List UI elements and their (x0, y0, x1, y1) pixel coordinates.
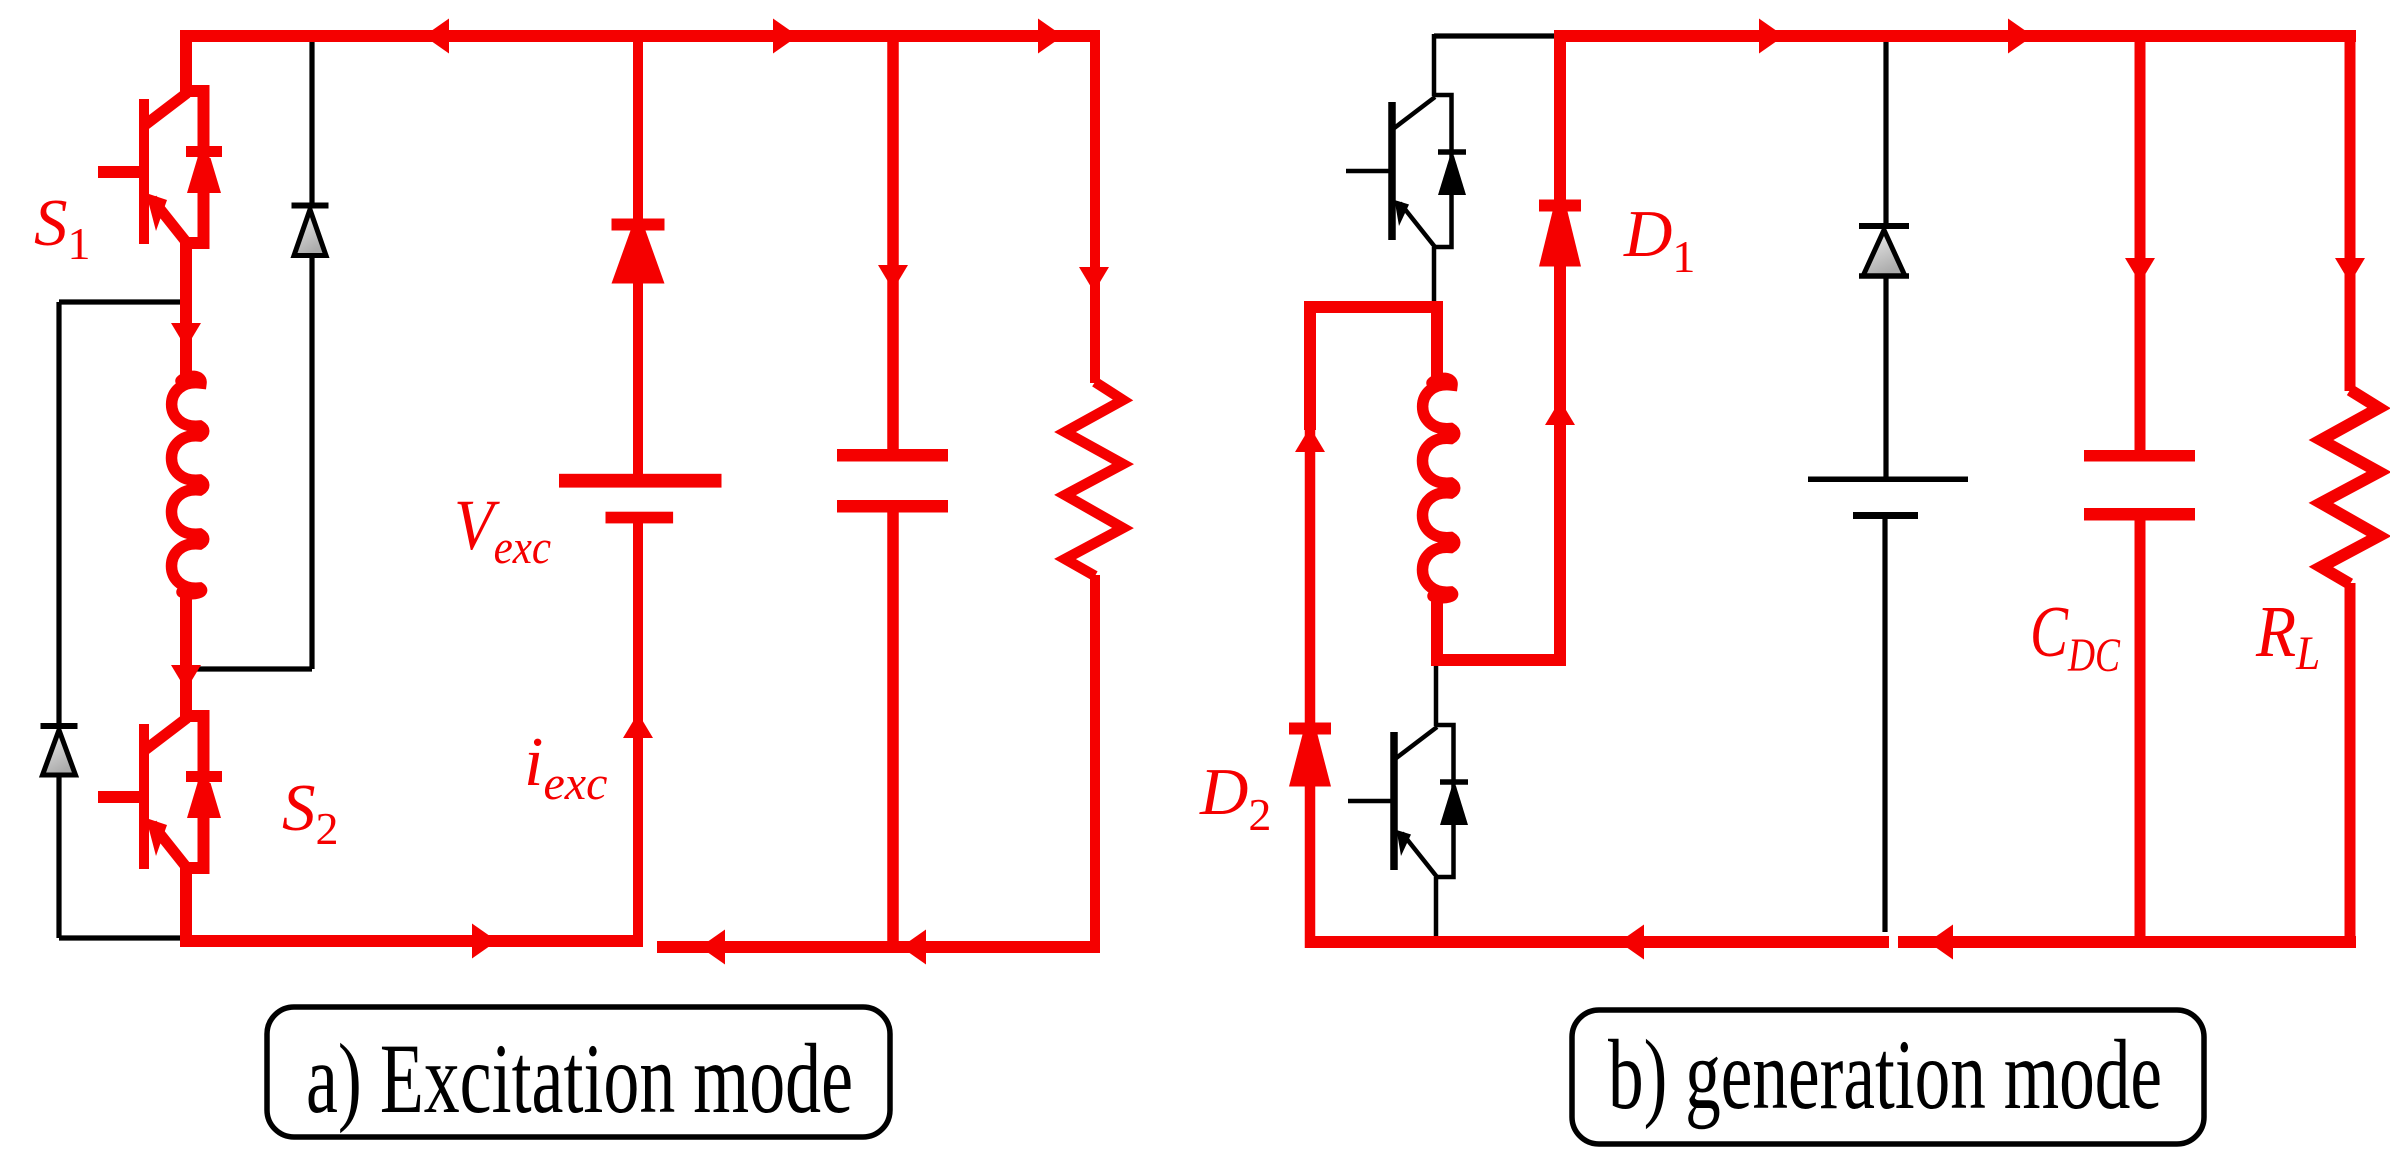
wire: DC-link capacitor branch upper (left ckt) (887, 36, 899, 450)
wire: capacitor branch lower (left ckt) (887, 512, 899, 947)
wire: D2-branch top corner to winding (1310, 307, 1437, 430)
current arrow iexc (up) (623, 713, 653, 738)
wire: bottom bus right segment (gen ckt) (1898, 936, 2356, 948)
wire: battery branch lower (black) (1882, 519, 1887, 932)
current arrow right on bottom bus (472, 924, 497, 959)
label RL (2255, 592, 2320, 680)
resistor R (load, left ckt) (1065, 382, 1123, 576)
resistor RL (load) (2321, 390, 2379, 584)
wire: S1 collector lead (180, 30, 192, 92)
current arrow down on CDC branch (2125, 258, 2155, 283)
wire: black freewheel-diode branch vertical (309, 36, 314, 204)
current arrow left on bottom bus (1) (700, 930, 725, 965)
current arrow up on D2 branch (1295, 427, 1325, 452)
inductor Lph (phase winding, excitation path) (172, 376, 204, 593)
diode (upper freewheel, off/gray) (292, 206, 329, 256)
battery Vexc positive plate (559, 474, 722, 488)
wire: S2 emitter to bottom bus (180, 866, 192, 947)
wire: Vexc branch upper (633, 36, 643, 220)
wire: battery branch middle (black) (1883, 276, 1888, 477)
battery Vexc negative plate (606, 512, 674, 524)
wire: D2 branch lower (1305, 786, 1316, 948)
current arrow left on gen bottom bus (right) (1928, 925, 1953, 960)
wire: right rail lower (left ckt) (1090, 575, 1100, 947)
capacitor CDC bottom plate (2084, 508, 2195, 521)
wire: D2 branch upper (1305, 425, 1316, 723)
wire: lower IGBT emitter lead (black) (1434, 877, 1439, 946)
diode (series with Vexc, red) (612, 225, 665, 284)
diode D2 (conducting/red) (1289, 729, 1331, 787)
wire: winding bottom corner to D1 branch (1437, 595, 1560, 660)
label CDC (2030, 592, 2121, 682)
wire: top black link (generation ckt) (1434, 33, 1562, 38)
svg-text:a) Excitation mode: a) Excitation mode (306, 1023, 853, 1134)
current arrow down above S2 (171, 665, 201, 690)
wire: load rail upper (RL) (2345, 30, 2356, 391)
wire: diode to battery (633, 283, 643, 475)
current arrow down on S1 emitter wire (171, 323, 201, 348)
wire: battery to bottom bus (633, 522, 643, 941)
wire: D1 branch lower (1554, 266, 1566, 666)
current arrow down on RL branch (2335, 258, 2365, 283)
wire: bottom bus left segment (183, 935, 643, 947)
transistor T2 (IGBT, off/black) (1348, 725, 1468, 877)
wire: top bus of generation circuit (1560, 30, 2356, 42)
wire: capacitor CDC branch upper (2135, 36, 2146, 451)
wire: freewheel branch lower (309, 254, 314, 669)
wire: bottom bus left segment (gen ckt) (1306, 936, 1889, 948)
svg-text:b) generation mode: b) generation mode (1608, 1019, 2162, 1130)
transistor S2 (IGBT, conducting/red) (98, 716, 222, 869)
transistor T1 (IGBT, off/black) (1346, 95, 1466, 247)
transistor S1 (IGBT, conducting/red) (98, 91, 222, 244)
current arrow (left) on top bus (424, 19, 449, 54)
diode (battery branch, off/gray) (1859, 226, 1909, 276)
current arrow up on D1 branch (1545, 400, 1575, 425)
current arrow right on top bus (gen 2) (2008, 19, 2033, 54)
wire: right rail upper (to load resistor) (1090, 30, 1100, 383)
diode (lower freewheel, off/gray) (41, 726, 78, 775)
wire: battery branch upper (black) (1883, 36, 1888, 225)
wire: outer black rail upper (56, 302, 61, 724)
wire: S1 emitter to phase winding (180, 243, 192, 380)
current arrow left on gen bottom bus (left) (1619, 925, 1644, 960)
wire: load rail lower (RL) (2345, 583, 2356, 948)
battery negative plate (black) (1853, 512, 1918, 519)
current arrow right on top bus (gen 1) (1759, 19, 1784, 54)
wire: winding bottom to S2 (180, 591, 192, 718)
capacitor CDC top plate (2084, 450, 2195, 462)
wire: top bus of excitation circuit (182, 30, 1100, 42)
current arrow down on load branch (1079, 267, 1109, 292)
caption box a (267, 1007, 890, 1137)
diode D1 (conducting/red) (1539, 206, 1581, 267)
battery positive plate (black) (1808, 477, 1968, 483)
current arrow (right) near top-right corner (1038, 19, 1063, 54)
wire: D1 branch upper (1554, 30, 1566, 201)
wire: upper IGBT collector lead (black) (1432, 34, 1437, 96)
capacitor bottom plate (left ckt) (837, 500, 948, 513)
wire: upper IGBT emitter lead (black) (1432, 247, 1437, 307)
wire: outer black rail lower (56, 773, 61, 938)
capacitor top plate (left ckt) (837, 449, 948, 462)
wire: freewheel branch to winding node (186, 666, 312, 671)
current arrow (right) on top bus (773, 19, 798, 54)
wire: outer black rail top link (59, 299, 186, 304)
label Vexc (454, 485, 551, 574)
inductor Lph (phase winding, generation path) (1423, 378, 1455, 597)
wire: capacitor CDC branch lower (2135, 520, 2146, 948)
wire: outer black rail bottom link (59, 935, 183, 940)
current arrow left on bottom bus (2) (901, 930, 926, 965)
caption box b (1572, 1010, 2204, 1144)
wire: bottom bus right segment (657, 941, 1100, 953)
wire: lower IGBT collector lead (black) (1434, 660, 1439, 726)
current arrow down on capacitor branch (878, 265, 908, 290)
